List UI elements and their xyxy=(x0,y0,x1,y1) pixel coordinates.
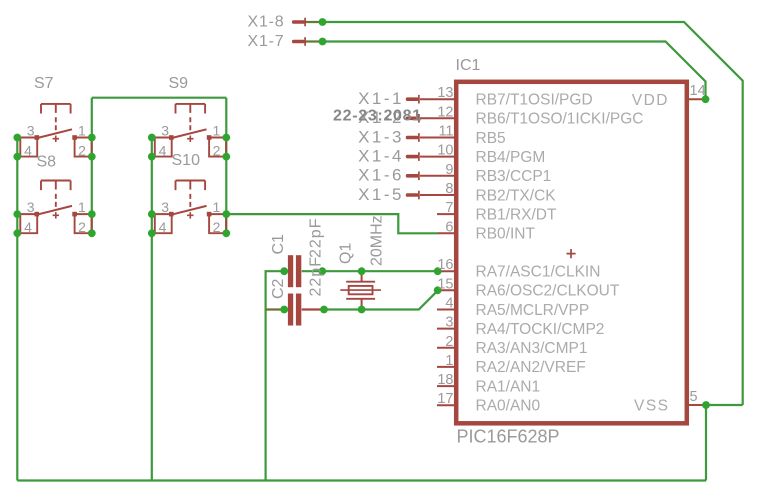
svg-text:S10: S10 xyxy=(172,152,201,169)
svg-text:17: 17 xyxy=(437,391,453,407)
svg-text:RA0/AN0: RA0/AN0 xyxy=(476,398,541,415)
svg-text:10: 10 xyxy=(437,143,453,159)
svg-text:11: 11 xyxy=(438,124,453,140)
svg-text:RB4/PGM: RB4/PGM xyxy=(476,149,546,166)
svg-text:22pF: 22pF xyxy=(308,256,325,296)
svg-text:RA3/AN3/CMP1: RA3/AN3/CMP1 xyxy=(476,340,588,357)
svg-text:S8: S8 xyxy=(37,154,57,171)
svg-text:3: 3 xyxy=(445,315,453,331)
svg-text:IC1: IC1 xyxy=(456,57,481,74)
svg-text:S7: S7 xyxy=(34,75,54,92)
svg-text:22-23:2081: 22-23:2081 xyxy=(333,108,422,125)
svg-text:RA7/ASC1/CLKIN: RA7/ASC1/CLKIN xyxy=(476,264,601,281)
svg-text:14: 14 xyxy=(690,83,706,99)
svg-text:X1-1: X1-1 xyxy=(358,89,404,108)
svg-text:RA1/AN1: RA1/AN1 xyxy=(476,378,541,395)
svg-text:PIC16F628P: PIC16F628P xyxy=(457,427,560,447)
svg-text:7: 7 xyxy=(445,200,453,216)
svg-text:S9: S9 xyxy=(169,75,189,92)
svg-text:RB5: RB5 xyxy=(476,130,506,147)
svg-text:C1: C1 xyxy=(270,234,287,255)
svg-text:20MHz: 20MHz xyxy=(369,215,386,266)
svg-text:RA6/OSC2/CLKOUT: RA6/OSC2/CLKOUT xyxy=(476,283,620,300)
svg-text:RB3/CCP1: RB3/CCP1 xyxy=(476,168,552,185)
svg-text:RB0/INT: RB0/INT xyxy=(476,226,536,243)
svg-text:15: 15 xyxy=(437,276,453,292)
svg-text:VDD: VDD xyxy=(632,92,669,109)
svg-text:RA4/TOCKI/CMP2: RA4/TOCKI/CMP2 xyxy=(476,321,605,338)
svg-text:RB7/T1OSI/PGD: RB7/T1OSI/PGD xyxy=(476,92,593,109)
svg-text:8: 8 xyxy=(445,181,453,197)
svg-text:6: 6 xyxy=(445,219,453,235)
svg-text:X1-6: X1-6 xyxy=(358,166,404,185)
svg-text:12: 12 xyxy=(437,104,453,120)
svg-text:13: 13 xyxy=(437,85,453,101)
svg-text:RB2/TX/CK: RB2/TX/CK xyxy=(476,187,557,204)
svg-text:18: 18 xyxy=(437,372,453,388)
svg-text:X1-5: X1-5 xyxy=(358,185,404,204)
svg-text:RB1/RX/DT: RB1/RX/DT xyxy=(476,206,557,223)
svg-text:16: 16 xyxy=(437,257,453,273)
svg-text:VSS: VSS xyxy=(634,397,670,414)
svg-text:Q1: Q1 xyxy=(338,243,355,264)
svg-text:9: 9 xyxy=(445,162,453,178)
svg-text:X1-4: X1-4 xyxy=(358,146,404,165)
svg-text:5: 5 xyxy=(690,389,698,405)
svg-text:RB6/T1OSO/1ICKI/PGC: RB6/T1OSO/1ICKI/PGC xyxy=(476,111,644,128)
svg-text:C2: C2 xyxy=(270,278,287,299)
svg-text:RA2/AN2/VREF: RA2/AN2/VREF xyxy=(476,359,586,376)
svg-text:22pF: 22pF xyxy=(308,218,325,258)
svg-text:X1-8: X1-8 xyxy=(248,14,285,31)
svg-text:4: 4 xyxy=(445,296,453,312)
svg-text:1: 1 xyxy=(445,353,453,369)
svg-text:RA5/MCLR/VPP: RA5/MCLR/VPP xyxy=(476,302,590,319)
svg-text:X1-7: X1-7 xyxy=(248,33,285,50)
svg-text:2: 2 xyxy=(445,334,453,350)
svg-text:X1-3: X1-3 xyxy=(358,127,404,146)
